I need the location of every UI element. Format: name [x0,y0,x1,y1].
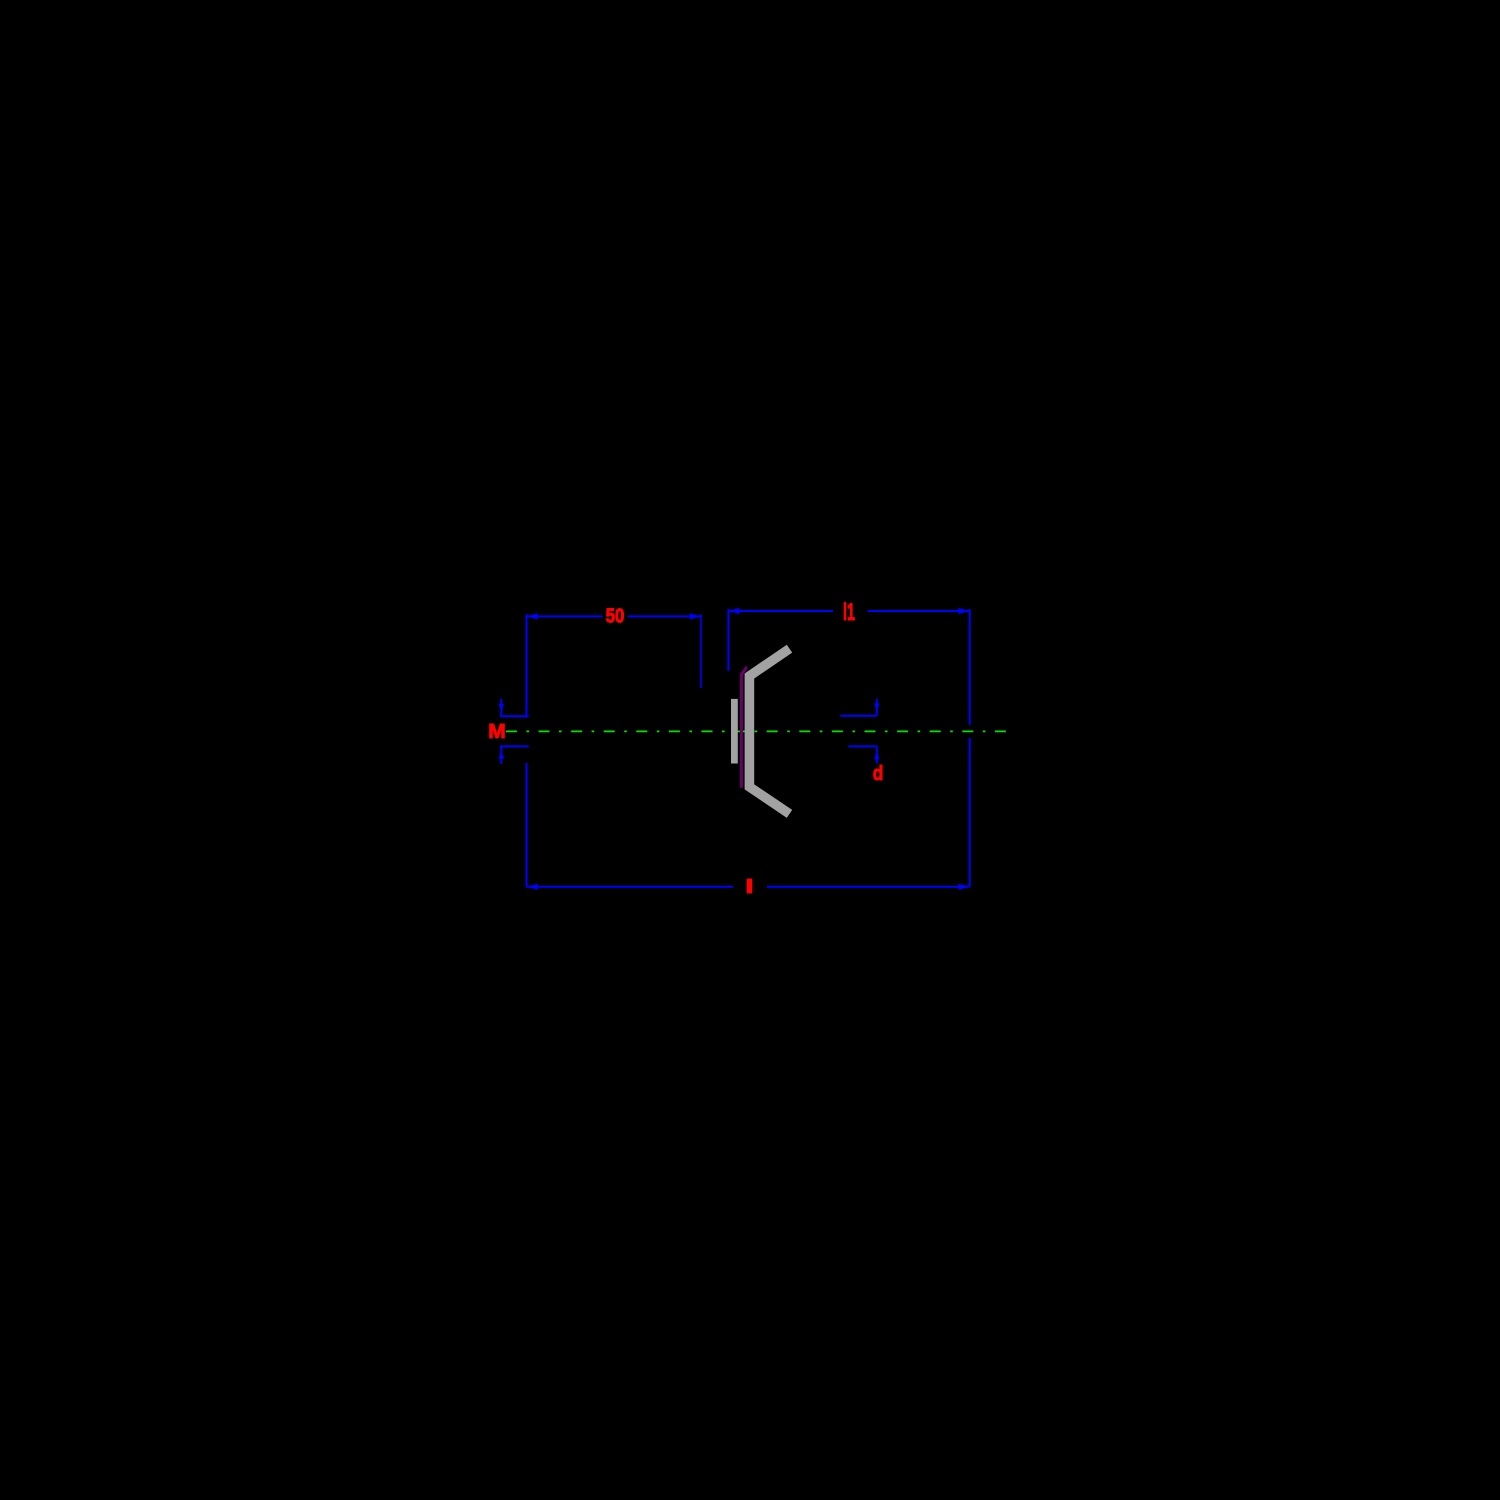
arrowhead l1 left [729,608,739,614]
d dimension upper bracket [840,715,876,717]
arrowhead l right [959,884,969,890]
arrowhead 50 right [690,613,700,619]
d dimension lower bracket [848,745,876,747]
centerline (green dash-dot axis) [506,730,1013,732]
dimension line l (left segment) [527,886,734,888]
extension line left of l1 dim (x=728.4) [727,609,729,671]
arrowhead l1 right [959,608,969,614]
label l [733,877,767,897]
svg-text:d: d [873,763,884,785]
d upper arrowhead (down) [874,704,879,712]
dimension line 50 (right segment) [628,615,702,617]
svg-text:l1: l1 [843,599,855,626]
M lower arrow stem [500,746,502,764]
svg-text:M: M [488,721,506,743]
label 50 [603,607,628,626]
M dimension lower bracket [500,745,529,747]
M lower arrowhead (up) [499,751,504,759]
d upper arrow stem [876,699,878,716]
extension line right of 50 dim (x=701) [700,614,702,688]
arrowhead l left [527,884,537,890]
extension line left (x=526.5 lower) [526,763,528,887]
dimension line l1 (left segment) [728,610,833,612]
d lower arrowhead (up) [874,751,879,759]
cup back edge (purple) [741,667,746,788]
dimension line 50 (left segment) [527,615,603,617]
extension line right (x=969.7 above centerline) [969,609,971,725]
brush cup profile (gray) [749,649,789,814]
drawing area background square [450,450,1050,1050]
M dimension upper bracket [500,715,529,717]
arrowhead 50 left [527,613,537,619]
M upper arrowhead (down) [499,704,504,712]
d lower arrow stem [876,746,878,763]
dimension line l1 (right segment) [867,610,969,612]
M upper arrow stem [500,699,502,717]
shank hub bar (gray) [731,699,738,764]
label l1 [833,600,867,622]
dimension line l (right segment) [767,886,970,888]
svg-text:50: 50 [606,606,625,628]
extension line right (x=969.7 below centerline) [969,738,971,887]
extension line left (x=526.5 upper) [526,614,528,717]
